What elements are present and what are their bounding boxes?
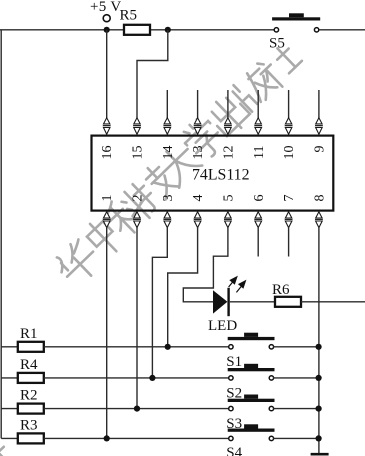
wire stub above pin 11 <box>257 90 259 118</box>
wire pin 4 jog down to R1 row <box>168 227 198 347</box>
svg-text:R4: R4 <box>20 357 38 373</box>
svg-text:13: 13 <box>191 146 206 160</box>
wire left bus to R3 <box>1 437 18 439</box>
connector pin 14 (top) <box>163 118 171 134</box>
switch S2 <box>226 364 274 402</box>
connector pin 8 (bottom) <box>315 212 323 228</box>
wire pin 1 down to R3 row <box>106 227 108 438</box>
svg-text:+5 V: +5 V <box>90 0 121 15</box>
connector pin 12 (top) <box>224 118 232 134</box>
ground <box>311 453 329 456</box>
wire left bus to R4 <box>1 377 18 379</box>
connector pin 13 (top) <box>194 118 202 134</box>
connector pin 6 (bottom) <box>254 212 262 228</box>
svg-text:10: 10 <box>282 146 297 160</box>
connector pin 4 (bottom) <box>194 212 202 228</box>
connector pin 1 (bottom) <box>103 212 111 228</box>
svg-text:74LS112: 74LS112 <box>192 167 250 184</box>
wire R6 to right edge <box>301 301 365 303</box>
wire stub below pin 7 <box>288 227 290 257</box>
wire stub above pin 10 <box>288 90 290 118</box>
junction bus/S4 row <box>316 435 322 441</box>
resistor R6 <box>272 282 301 307</box>
svg-text:4: 4 <box>191 195 206 202</box>
junction pin1/R3 row <box>104 435 110 441</box>
resistor R1 <box>18 326 44 352</box>
wire LED cathode to R6 <box>230 301 275 303</box>
junction bus/S2 row <box>316 375 322 381</box>
svg-text:8: 8 <box>312 195 327 202</box>
svg-text:2: 2 <box>131 195 146 202</box>
connector pin 16 (top) <box>103 118 111 134</box>
wire pin 2 down to R2 row <box>136 227 138 409</box>
wire R5 to pin 15 (jog) <box>137 30 168 119</box>
wire stub below pin 6 <box>257 227 259 257</box>
wire pin 5 jog down to LED anode <box>183 227 228 302</box>
connector pin 5 (bottom) <box>224 212 232 228</box>
connector pin 10 (top) <box>285 118 293 134</box>
wire pin 3 jog down to R4 row <box>152 227 167 378</box>
connector pin 7 (bottom) <box>285 212 293 228</box>
switch S4 <box>226 424 274 456</box>
wire left bus to R1 <box>1 346 18 348</box>
junction node +5V rail / pin16 <box>104 27 110 33</box>
svg-text:7: 7 <box>282 195 297 202</box>
IC U1 74LS112 body <box>92 136 334 211</box>
svg-text:R3: R3 <box>20 417 38 433</box>
wire R2 to switch S3 <box>44 408 229 410</box>
wire +5V to pin 16 <box>106 30 108 119</box>
connector pin 2 (bottom) <box>133 212 141 228</box>
svg-text:1: 1 <box>100 195 115 202</box>
svg-text:14: 14 <box>161 146 176 160</box>
wire stub above pin 12 <box>227 90 229 118</box>
svg-text:3: 3 <box>161 195 176 202</box>
junction bus/S3 row <box>316 406 322 412</box>
svg-text:R5: R5 <box>120 8 138 24</box>
wire S1 to right bus <box>273 346 319 348</box>
svg-text:R2: R2 <box>20 388 38 404</box>
svg-text:6: 6 <box>252 195 267 202</box>
svg-text:12: 12 <box>221 146 236 160</box>
junction node R5 right <box>165 27 171 33</box>
LED D1 <box>208 288 237 334</box>
svg-text:R1: R1 <box>20 326 38 342</box>
connector pin 11 (top) <box>254 118 262 134</box>
svg-text:R6: R6 <box>272 282 290 298</box>
junction bus/S1 row <box>316 344 322 350</box>
wire left vertical bus <box>0 30 2 439</box>
wire S2 to right bus <box>273 377 319 379</box>
svg-text:16: 16 <box>100 146 115 160</box>
svg-text:LED: LED <box>208 318 237 334</box>
resistor R5 <box>120 8 151 35</box>
resistor R3 <box>18 417 44 443</box>
switch S3 <box>226 395 274 433</box>
switch S1 <box>226 333 274 371</box>
junction pin4/R1 row <box>165 344 171 350</box>
wire stub above pin 9 <box>318 90 320 118</box>
switch S5 <box>269 13 320 51</box>
wire R1 to switch S1 <box>44 346 229 348</box>
wire S3 to right bus <box>273 408 319 410</box>
connector pin 3 (bottom) <box>163 212 171 228</box>
wire stub above pin 13 <box>197 90 199 118</box>
junction pin2/R2 row <box>134 406 140 412</box>
svg-text:S5: S5 <box>269 36 285 52</box>
wire left bus to R2 <box>1 408 18 410</box>
junction pin3/R4 row <box>149 375 155 381</box>
svg-text:15: 15 <box>131 146 146 160</box>
connector pin 9 (top) <box>315 118 323 134</box>
watermark text (drawn glyphs) <box>0 40 305 456</box>
wire S5 right to edge <box>319 29 365 31</box>
LED light arrows <box>229 277 246 293</box>
wire +5V top rail <box>0 29 275 31</box>
resistor R4 <box>18 357 44 383</box>
+5V supply terminal <box>90 0 121 22</box>
svg-text:S4: S4 <box>226 445 242 456</box>
resistor R2 <box>18 388 44 414</box>
svg-text:9: 9 <box>312 146 327 153</box>
svg-text:5: 5 <box>221 195 236 202</box>
svg-text:11: 11 <box>252 146 267 159</box>
wire R4 to switch S2 <box>44 377 229 379</box>
wire S4 to right bus <box>273 437 319 439</box>
svg-text:S1: S1 <box>226 354 242 370</box>
wire stub above pin 14 <box>166 90 168 118</box>
wire pin 8 down to ground bus <box>318 227 320 454</box>
connector pin 15 (top) <box>133 118 141 134</box>
wire R3 to switch S4 <box>44 437 229 439</box>
